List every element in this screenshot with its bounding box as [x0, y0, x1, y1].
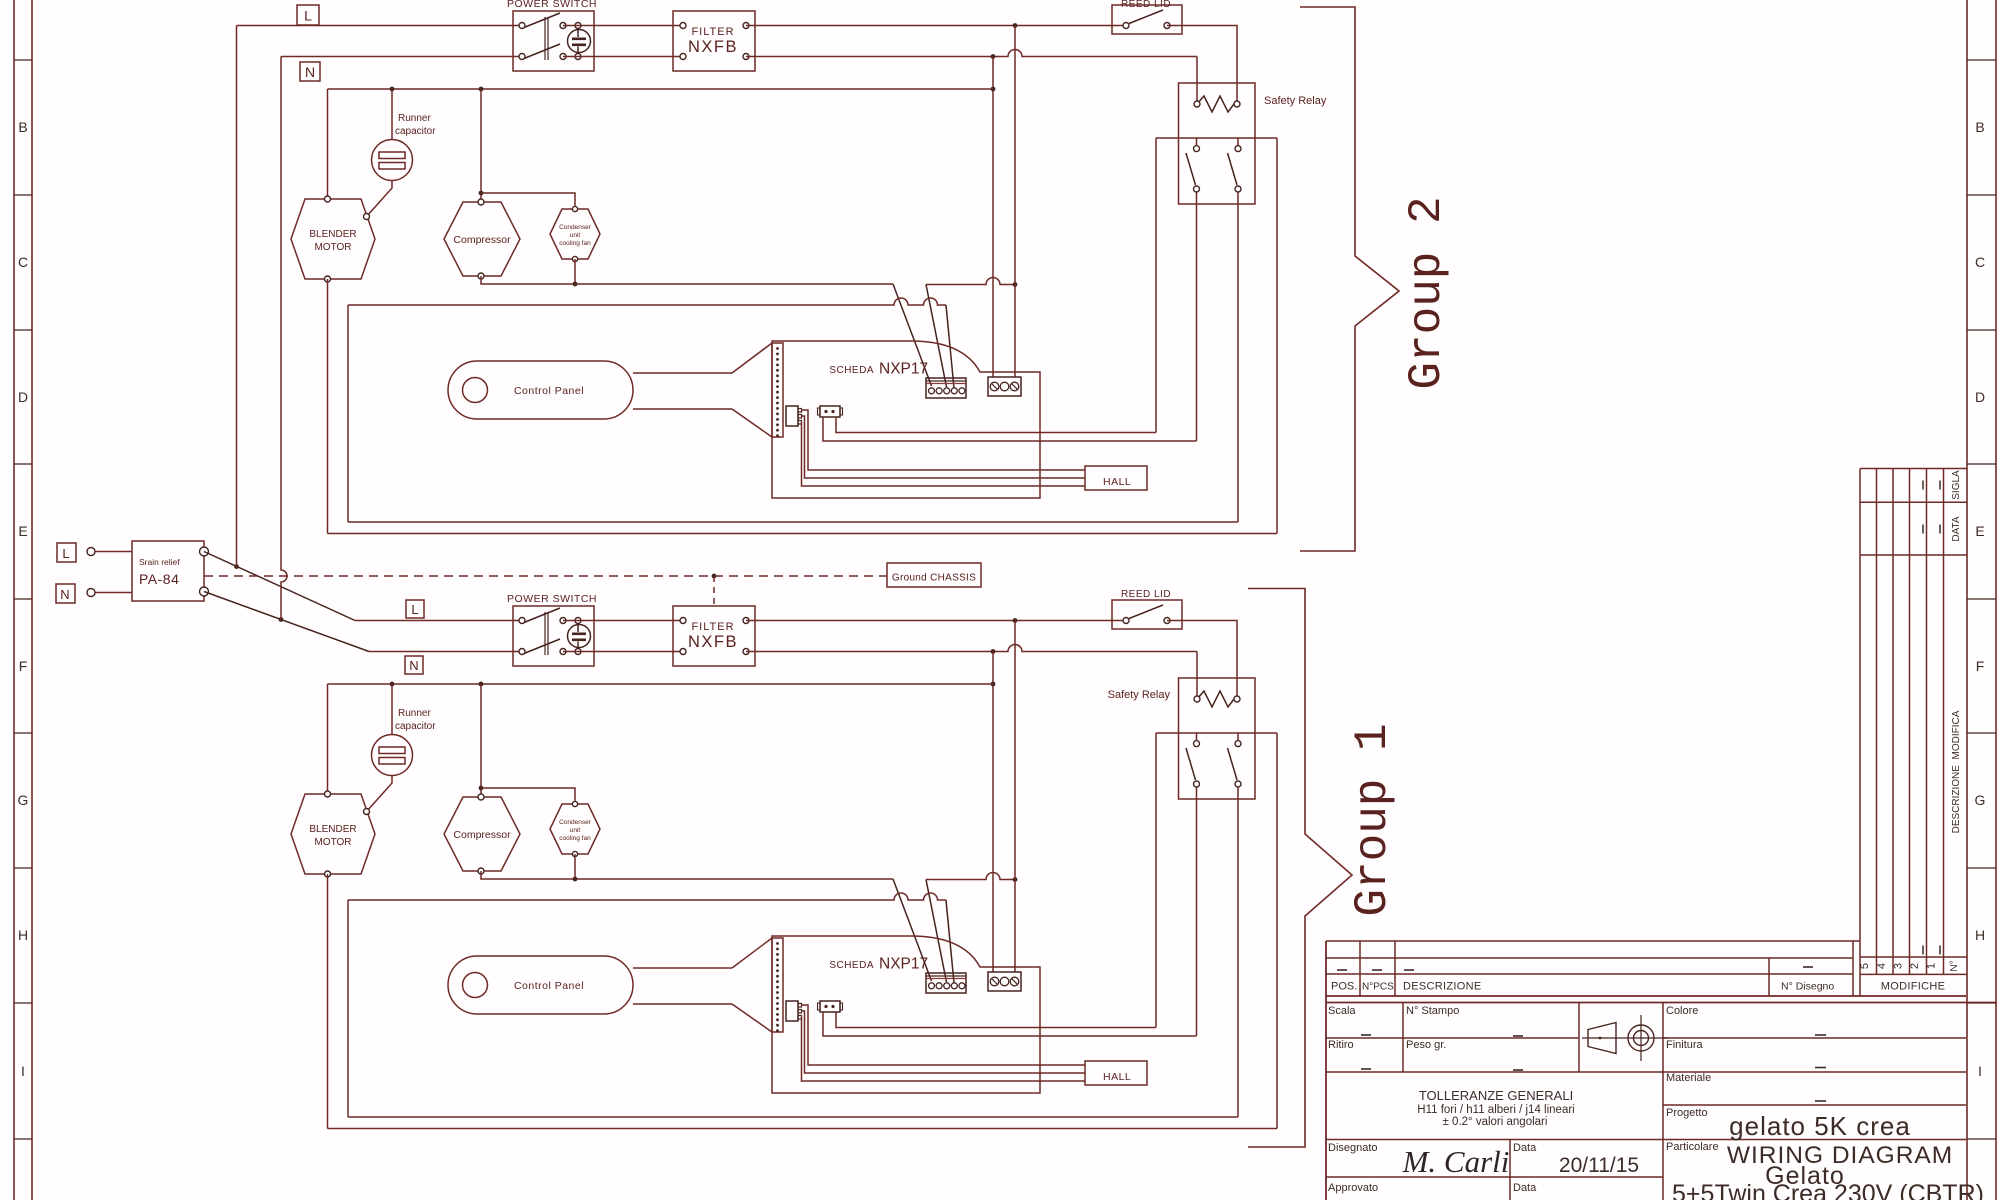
wire N filter to relay coil Group 1: [746, 645, 1197, 652]
svg-text:E: E: [1975, 523, 1984, 539]
ground chassis box: [887, 563, 981, 587]
wire N diagonal to groups: [204, 592, 369, 652]
border letters right: [1975, 119, 1986, 1079]
wire L feed Group 2: [237, 25, 523, 27]
svg-text:NXP17: NXP17: [879, 956, 928, 973]
svg-text:SCHEDA: SCHEDA: [829, 960, 874, 971]
svg-text:2: 2: [1909, 963, 1921, 969]
svg-text:3: 3: [1892, 963, 1904, 969]
title colore cells: [1666, 1005, 1984, 1200]
wire panel loop Group 1: [348, 893, 946, 900]
filter NXFB Group 2: [673, 11, 755, 71]
svg-text:Materiale: Materiale: [1666, 1072, 1711, 1084]
svg-text:4: 4: [1876, 963, 1888, 969]
svg-text:Scala: Scala: [1328, 1005, 1356, 1017]
wire L riser group2: [236, 26, 238, 567]
wire switch to filter L Group 1: [563, 620, 683, 622]
wire fan bottom Group 2: [574, 259, 576, 284]
reed lid switch Group 2: [1112, 0, 1182, 34]
svg-text:SIGLA: SIGLA: [1951, 470, 1962, 500]
wire board to contact box left Group 1: [836, 1012, 1156, 1028]
wire diagonal D2 to board Group 1: [926, 880, 947, 983]
wire bus to blender motor Group 1: [327, 684, 329, 794]
svg-text:N° Disegno: N° Disegno: [1781, 981, 1834, 993]
group brace Group 2: [1300, 7, 1399, 551]
wire branch to fan Group 1: [481, 788, 575, 804]
blender motor Group 1: [291, 791, 375, 877]
title tolleranze: [1417, 1088, 1574, 1128]
svg-text:B: B: [18, 119, 27, 135]
svg-text:Compressor: Compressor: [453, 234, 511, 246]
terminal N input: [56, 584, 95, 603]
revision table rotated labels: [1859, 470, 1962, 972]
junction bus capacitor Group 2: [390, 87, 395, 92]
wire contact box right leg Group 2: [1276, 138, 1278, 534]
wire compressor bottom Group 2: [481, 276, 893, 284]
svg-text:D: D: [18, 389, 28, 405]
wire diagonal D1 to board Group 2: [893, 284, 932, 386]
junction bottom bus x1015 Group 2: [1013, 282, 1018, 287]
wire L feed Group 1: [355, 620, 522, 622]
svg-text:C: C: [18, 254, 28, 270]
strain relief PA-84: [132, 541, 209, 601]
svg-text:M. Carli: M. Carli: [1402, 1144, 1510, 1179]
svg-text:H: H: [18, 927, 28, 943]
svg-text:1: 1: [1926, 963, 1938, 969]
wire contact box left leg Group 2: [1155, 138, 1157, 433]
svg-text:Ritiro: Ritiro: [1328, 1039, 1354, 1051]
svg-text:Data: Data: [1513, 1182, 1537, 1194]
svg-text:N: N: [305, 64, 315, 80]
relay contacts Group 1: [1156, 733, 1277, 787]
svg-text:Approvato: Approvato: [1328, 1182, 1378, 1194]
wire diagonal D2 to board Group 2: [926, 285, 947, 388]
wire hall 2 Group 2: [802, 416, 1086, 478]
svg-text:H11 fori / h11 alberi / j14 li: H11 fori / h11 alberi / j14 lineari: [1417, 1104, 1574, 1116]
revision table MODIFICHE: [1860, 469, 1967, 997]
svg-text:Runner: Runner: [398, 113, 431, 124]
2-pin connector J3 Group 1: [818, 1001, 843, 1012]
power switch S1 Group 2: [507, 0, 597, 71]
svg-text:Particolare: Particolare: [1666, 1141, 1719, 1153]
wire N feed Group 1: [369, 651, 522, 653]
ground chassis dashed bus: [204, 575, 887, 577]
svg-text:HALL: HALL: [1103, 1071, 1131, 1083]
svg-text:DESCRIZIONE: DESCRIZIONE: [1403, 981, 1481, 993]
junction bus capacitor Group 1: [390, 682, 395, 687]
wire L drop to terminal block Group 2: [1014, 26, 1016, 378]
svg-text:MOTOR: MOTOR: [314, 242, 351, 253]
svg-text:Safety Relay: Safety Relay: [1108, 689, 1171, 701]
board edge connector strip Group 2: [772, 343, 783, 437]
wire bottom bus right segment Group 2: [926, 278, 1015, 285]
svg-text:POS.: POS.: [1331, 981, 1357, 993]
revision table dashes: [1923, 481, 1940, 955]
wire bus to compressor Group 2: [480, 89, 482, 202]
svg-text:FILTER: FILTER: [691, 26, 734, 38]
svg-text:DATA: DATA: [1951, 516, 1962, 542]
5-pin connector J1 Group 2: [926, 378, 966, 398]
condenser unit cooling fan Group 2: [550, 206, 600, 261]
svg-text:BLENDER: BLENDER: [309, 824, 356, 835]
junction fan bottom Group 1: [573, 877, 578, 882]
relay contacts Group 2: [1156, 138, 1277, 192]
svg-text:Group 1: Group 1: [1347, 723, 1399, 916]
svg-text:SCHEDA: SCHEDA: [829, 365, 874, 376]
wire L input: [95, 551, 132, 553]
wire hall 3 Group 2: [802, 422, 1086, 486]
svg-text:Disegnato: Disegnato: [1328, 1142, 1378, 1154]
svg-text:E: E: [18, 523, 27, 539]
wire N feed Group 2: [281, 56, 522, 58]
wire reed lid to relay coil Group 2: [1167, 26, 1237, 105]
terminal block mains Group 1: [988, 972, 1021, 991]
wire fan bottom Group 1: [574, 854, 576, 879]
svg-text:Condenser: Condenser: [559, 819, 592, 826]
junction N x993 Group 2: [991, 54, 996, 59]
svg-text:5+5Twin Crea 230V (CBTR): 5+5Twin Crea 230V (CBTR): [1672, 1180, 1984, 1200]
svg-text:POWER SWITCH: POWER SWITCH: [507, 593, 597, 605]
svg-text:Compressor: Compressor: [453, 829, 511, 841]
wire reed lid to relay coil Group 1: [1167, 621, 1237, 700]
safety relay Group 1: [1108, 678, 1255, 799]
svg-text:C: C: [1975, 254, 1985, 270]
HALL sensor box Group 1: [1085, 1061, 1147, 1085]
compressor Group 1: [444, 794, 520, 874]
junction L group2 drop: [234, 564, 239, 569]
wire hall 3 Group 1: [802, 1017, 1086, 1081]
svg-text:Safety Relay: Safety Relay: [1264, 95, 1327, 107]
junction L x1015 Group 1: [1013, 618, 1018, 623]
scheda NXP17 board Group 1: [772, 936, 1040, 1093]
svg-text:D: D: [1975, 389, 1985, 405]
svg-text:capacitor: capacitor: [395, 126, 436, 137]
N net label box Group 2: [300, 62, 320, 81]
wire bus to blender motor Group 2: [327, 89, 329, 199]
svg-text:20/11/15: 20/11/15: [1559, 1154, 1639, 1177]
svg-text:L: L: [62, 546, 69, 561]
title header row labels: [1331, 981, 1834, 993]
svg-text:N° Stampo: N° Stampo: [1406, 1005, 1459, 1017]
wire hall 1 Group 1: [802, 1005, 1086, 1065]
wire L filter to reed lid Group 2: [746, 25, 1126, 27]
junction ground filter drop: [712, 574, 717, 579]
wire motor bottom loop Group 1: [327, 874, 329, 1129]
wire hall 1 Group 2: [802, 410, 1086, 470]
5-pin connector J1 Group 1: [926, 973, 966, 993]
wire contact2 lower drop Group 2: [1237, 192, 1239, 522]
svg-text:F: F: [1976, 658, 1985, 674]
wire bus to compressor Group 1: [480, 684, 482, 797]
junction bus compressor Group 2: [479, 87, 484, 92]
terminal block mains Group 2: [988, 377, 1021, 396]
svg-text:POWER SWITCH: POWER SWITCH: [507, 0, 597, 10]
sheet border right strip: [1967, 0, 1996, 1200]
svg-text:REED LID: REED LID: [1121, 589, 1171, 600]
svg-text:HALL: HALL: [1103, 476, 1131, 488]
sheet border left strip: [14, 0, 32, 1200]
junction fan bottom Group 2: [573, 282, 578, 287]
svg-text:capacitor: capacitor: [395, 721, 436, 732]
wire L diagonal to groups: [204, 552, 355, 621]
svg-text:L: L: [411, 602, 418, 617]
runner capacitor Group 1: [367, 684, 436, 811]
title scala cells: [1328, 1005, 1523, 1070]
wire L drop to terminal block Group 1: [1014, 621, 1016, 973]
svg-text:MOTOR: MOTOR: [314, 837, 351, 848]
svg-text:NXFB: NXFB: [688, 38, 738, 56]
wire contact2 lower drop Group 1: [1237, 787, 1239, 1117]
svg-text:N: N: [60, 587, 69, 602]
svg-text:cooling fan: cooling fan: [559, 835, 591, 842]
wire bottom bus right segment Group 1: [926, 873, 1015, 880]
svg-text:L: L: [304, 8, 312, 24]
svg-text:I: I: [21, 1063, 25, 1079]
svg-text:Condenser: Condenser: [559, 224, 592, 231]
junction L x1015 Group 2: [1013, 23, 1018, 28]
svg-text:PA-84: PA-84: [139, 571, 179, 587]
filter NXFB Group 1: [673, 606, 755, 666]
wire switch to filter L Group 2: [563, 25, 683, 27]
junction N group2 drop: [279, 617, 284, 622]
wire N filter to relay coil Group 2: [746, 50, 1197, 57]
dashed ground drop to filter: [713, 576, 715, 606]
svg-text:REED LID: REED LID: [1121, 0, 1171, 10]
wire N drop to terminal block Group 1: [992, 652, 994, 973]
compressor Group 2: [444, 199, 520, 279]
wire L filter to reed lid Group 1: [746, 620, 1126, 622]
border letters left: [18, 119, 29, 1079]
wire contact1 lower drop Group 2: [1196, 192, 1198, 441]
svg-text:FILTER: FILTER: [691, 621, 734, 633]
svg-text:BLENDER: BLENDER: [309, 229, 356, 240]
svg-text:Finitura: Finitura: [1666, 1039, 1704, 1051]
3-pin connector J2 Group 1: [786, 1001, 802, 1021]
wire diagonal D1 to board Group 1: [893, 879, 932, 981]
svg-text:Runner: Runner: [398, 708, 431, 719]
title header dashes: [1337, 967, 1813, 970]
wire contact box left leg Group 1: [1155, 733, 1157, 1028]
board edge connector strip Group 1: [772, 938, 783, 1032]
wire contact box right leg Group 1: [1276, 733, 1278, 1129]
svg-text:Colore: Colore: [1666, 1005, 1698, 1017]
wire hall 2 Group 1: [802, 1011, 1086, 1073]
svg-text:N°: N°: [1949, 960, 1960, 971]
svg-text:MODIFICHE: MODIFICHE: [1881, 981, 1945, 993]
scheda NXP17 board Group 2: [772, 341, 1040, 498]
2-pin connector J3 Group 2: [818, 406, 843, 417]
svg-text:B: B: [1975, 119, 1984, 135]
svg-text:Data: Data: [1513, 1142, 1537, 1154]
wire compressor bottom Group 1: [481, 871, 893, 879]
svg-text:Ground CHASSIS: Ground CHASSIS: [892, 573, 976, 584]
svg-text:Srain relief: Srain relief: [139, 557, 180, 567]
svg-text:Control Panel: Control Panel: [514, 385, 584, 397]
condenser unit cooling fan Group 1: [550, 801, 600, 856]
svg-text:gelato 5K crea: gelato 5K crea: [1729, 1111, 1911, 1141]
svg-text:cooling fan: cooling fan: [559, 240, 591, 247]
power switch S2 Group 1: [507, 593, 597, 666]
reed lid switch Group 1: [1112, 589, 1182, 629]
wire top bus Group 1: [328, 683, 994, 685]
junction bottom bus x1015 Group 1: [1013, 877, 1018, 882]
control panel Group 1: [448, 938, 772, 1032]
svg-text:Progetto: Progetto: [1666, 1107, 1708, 1119]
HALL sensor box Group 2: [1085, 466, 1147, 490]
junction compressor fan branch Group 2: [479, 191, 484, 196]
junction N x993 Group 1: [991, 649, 996, 654]
wire switch to filter N Group 1: [563, 651, 683, 653]
projection symbol: [1582, 1015, 1668, 1061]
svg-text:Peso gr.: Peso gr.: [1406, 1039, 1446, 1051]
junction N wire3 Group 2: [991, 87, 996, 92]
wire N input: [95, 592, 132, 594]
blender motor Group 2: [291, 196, 375, 282]
wire contact1 lower drop Group 1: [1196, 787, 1198, 1036]
title signature cells: [1328, 1142, 1639, 1194]
wire board to contact box left Group 2: [836, 417, 1156, 433]
wire branch to fan Group 2: [481, 193, 575, 209]
svg-text:N: N: [409, 658, 418, 673]
terminal L input: [57, 543, 95, 562]
N net label box Group 1: [405, 656, 423, 674]
svg-text:unit: unit: [570, 827, 581, 834]
group brace Group 1: [1248, 589, 1352, 1148]
junction bus compressor Group 1: [479, 682, 484, 687]
runner capacitor Group 2: [367, 89, 436, 216]
L net label box Group 1: [406, 600, 424, 618]
wire top bus Group 2: [328, 88, 994, 90]
wire N drop to terminal block Group 2: [992, 57, 994, 378]
3-pin connector J2 Group 2: [786, 406, 802, 426]
wire board to contact1 Group 1: [823, 1012, 1197, 1036]
svg-text:unit: unit: [570, 232, 581, 239]
svg-text:Group 2: Group 2: [1401, 196, 1453, 389]
safety relay Group 2: [1179, 83, 1327, 204]
svg-text:H: H: [1975, 927, 1985, 943]
wire panel loop Group 2: [348, 298, 946, 305]
wire switch to filter N Group 2: [563, 56, 683, 58]
svg-text:F: F: [19, 658, 28, 674]
control panel Group 2: [448, 343, 772, 437]
svg-text:5: 5: [1859, 963, 1871, 969]
wire N riser group2: [281, 57, 287, 620]
junction N wire3 Group 1: [991, 682, 996, 687]
svg-text:TOLLERANZE GENERALI: TOLLERANZE GENERALI: [1419, 1088, 1573, 1103]
svg-text:Control Panel: Control Panel: [514, 980, 584, 992]
wire board to contact1 Group 2: [823, 417, 1197, 441]
title block frame: [1326, 941, 1997, 1200]
svg-text:N°PCS: N°PCS: [1362, 982, 1394, 993]
junction compressor fan branch Group 1: [479, 786, 484, 791]
svg-text:G: G: [1975, 792, 1986, 808]
svg-text:± 0.2° valori angolari: ± 0.2° valori angolari: [1443, 1116, 1548, 1128]
svg-text:DESCRIZIONE MODIFICA: DESCRIZIONE MODIFICA: [1951, 710, 1962, 833]
L net label box Group 2: [297, 5, 319, 25]
wire motor bottom loop Group 2: [327, 279, 329, 534]
svg-text:G: G: [18, 792, 29, 808]
svg-text:NXP17: NXP17: [879, 361, 928, 378]
svg-text:I: I: [1978, 1063, 1982, 1079]
svg-text:NXFB: NXFB: [688, 633, 738, 651]
